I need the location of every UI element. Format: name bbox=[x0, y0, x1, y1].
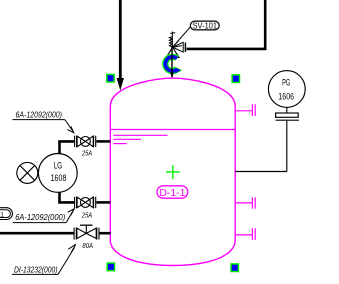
svg-text:SV-101: SV-101 bbox=[193, 22, 218, 31]
svg-text:6A-12092(000): 6A-12092(000) bbox=[16, 110, 63, 119]
svg-text:LG: LG bbox=[54, 160, 63, 170]
svg-text:1606: 1606 bbox=[278, 91, 294, 101]
svg-text:6A-12092(000): 6A-12092(000) bbox=[15, 213, 65, 222]
svg-text:DI-13232(000): DI-13232(000) bbox=[14, 265, 58, 274]
svg-text:25A: 25A bbox=[81, 211, 92, 220]
svg-text:1608: 1608 bbox=[51, 173, 67, 183]
svg-text:D-1-1: D-1-1 bbox=[159, 188, 185, 199]
svg-text:501: 501 bbox=[0, 211, 4, 218]
svg-text:25A: 25A bbox=[81, 149, 92, 158]
svg-text:PG: PG bbox=[282, 78, 290, 88]
svg-text:80A: 80A bbox=[82, 241, 93, 250]
